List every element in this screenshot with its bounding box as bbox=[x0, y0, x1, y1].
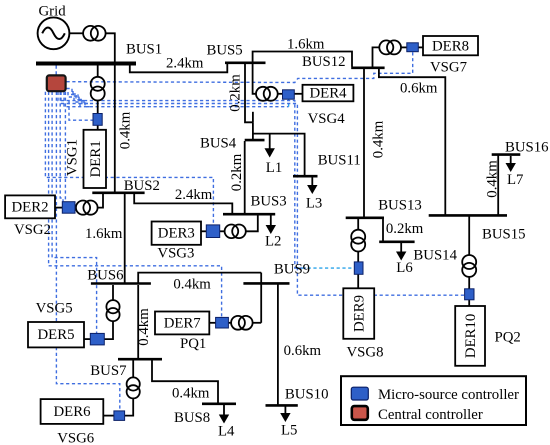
wire DER1 square to DER1 box bbox=[97, 125, 99, 130]
transformer DER10 TX bbox=[462, 255, 476, 277]
svg-text:DER2: DER2 bbox=[12, 199, 49, 215]
svg-text:DER9: DER9 bbox=[352, 295, 368, 332]
wire transformer to BUS1 bbox=[105, 33, 114, 62]
svg-text:PQ1: PQ1 bbox=[180, 336, 206, 352]
svg-text:BUS7: BUS7 bbox=[90, 363, 126, 379]
wire DER2 riser to BUS2 bbox=[98, 193, 103, 208]
wire DER2 square to TX bbox=[75, 207, 76, 209]
wire DER10 TX to square bbox=[468, 277, 470, 289]
wire dashed central controller to DER4 square bottom bbox=[64, 92, 289, 107]
wire BUS9 drop and DER7 riser bbox=[260, 273, 262, 323]
svg-text:1.6km: 1.6km bbox=[287, 37, 325, 53]
micro-source controller square DER10 bbox=[465, 289, 474, 300]
svg-text:L6: L6 bbox=[396, 260, 412, 276]
svg-text:BUS13: BUS13 bbox=[378, 198, 422, 214]
wire dashed central controller to DER9 square bbox=[58, 92, 306, 268]
wire grid to transformer bbox=[69, 32, 83, 34]
svg-text:DER5: DER5 bbox=[38, 327, 75, 343]
transformer DER7 TX bbox=[231, 316, 253, 330]
bus BUS16 bbox=[492, 153, 521, 156]
transformer DER1 TX bbox=[91, 77, 105, 101]
wire DER2 box to square bbox=[55, 207, 62, 209]
wire BUS7 to BUS8 0.4km bbox=[152, 360, 218, 403]
svg-text:Grid: Grid bbox=[39, 4, 67, 20]
wire DER3 box to square bbox=[201, 230, 206, 232]
svg-text:0.2km: 0.2km bbox=[229, 153, 245, 191]
svg-text:0.4km: 0.4km bbox=[371, 120, 387, 158]
svg-text:Central controller: Central controller bbox=[378, 407, 483, 423]
wire BUS7 to DER6 TX bbox=[132, 360, 134, 378]
transformer DER9 TX bbox=[351, 230, 365, 252]
micro-source controller square DER6 bbox=[114, 411, 125, 421]
svg-text:DER4: DER4 bbox=[310, 86, 348, 102]
svg-text:BUS6: BUS6 bbox=[87, 268, 123, 284]
DER6 box bbox=[41, 399, 104, 424]
transformer DER2 TX bbox=[76, 201, 98, 215]
svg-text:BUS4: BUS4 bbox=[200, 136, 237, 152]
load L7 arrow bbox=[506, 156, 516, 172]
svg-text:Micro-source controller: Micro-source controller bbox=[378, 387, 519, 403]
wire dashed central controller to DER2 square second line bbox=[60, 92, 63, 202]
wire dashed fan staircase decoration 4 bbox=[73, 91, 91, 107]
svg-text:VSG7: VSG7 bbox=[430, 60, 467, 76]
svg-text:BUS14: BUS14 bbox=[413, 248, 457, 264]
svg-text:BUS12: BUS12 bbox=[302, 54, 346, 70]
wire DER5 square to box bbox=[84, 338, 90, 340]
svg-text:L3: L3 bbox=[306, 196, 322, 212]
legend micro-source controller square bbox=[351, 387, 368, 400]
svg-text:DER10: DER10 bbox=[463, 314, 479, 358]
legend box bbox=[341, 376, 526, 425]
wire BUS9 to BUS10 0.6km bbox=[277, 285, 279, 406]
micro-source controller square DER2 bbox=[62, 202, 75, 214]
bus BUS5 bbox=[225, 61, 266, 64]
wire dashed central controller to DER1 square bbox=[69, 101, 93, 120]
wire DER6 square to box bbox=[103, 415, 114, 417]
svg-text:L2: L2 bbox=[265, 234, 281, 250]
wire dashed BUS9 to DER9 square light segment bbox=[296, 267, 354, 269]
wire BUS1 to BUS2 feeder 0.4km bbox=[114, 65, 116, 192]
svg-text:BUS8: BUS8 bbox=[174, 410, 210, 426]
transformer DER4 TX bbox=[256, 87, 278, 101]
svg-text:L7: L7 bbox=[507, 172, 523, 188]
transformer DER5 TX bbox=[106, 300, 119, 321]
svg-text:VSG5: VSG5 bbox=[36, 301, 73, 317]
wire BUS6 to BUS9 0.4km riser bbox=[138, 273, 261, 283]
svg-text:0.6km: 0.6km bbox=[400, 81, 438, 97]
wire BUS2 to BUS3 2.4km bbox=[134, 193, 232, 213]
wire DER4 TX to square bbox=[278, 93, 283, 95]
svg-text:BUS10: BUS10 bbox=[285, 387, 329, 403]
wire DER9 TX to square bbox=[357, 252, 359, 263]
bus BUS15 bbox=[429, 214, 507, 217]
wire BUS2 to BUS6 1.6km bbox=[124, 194, 126, 283]
wire DER7 TX elbow bbox=[253, 322, 262, 324]
svg-text:2.4km: 2.4km bbox=[166, 56, 204, 72]
wire dashed central controller to DER8 square bbox=[67, 52, 413, 83]
wire DER4 square to box bbox=[294, 93, 302, 95]
wire BUS4 branch junction to BUS11 bbox=[253, 134, 305, 177]
bus BUS11 bbox=[293, 175, 318, 178]
wire dashed central controller to DER6 square bbox=[56, 92, 119, 411]
wire jog down to BUS4 junction bbox=[252, 122, 254, 141]
load L5 arrow bbox=[280, 407, 290, 423]
svg-text:DER1: DER1 bbox=[88, 140, 104, 177]
micro-source controller square DER3 bbox=[206, 225, 219, 238]
transformer DER6 TX bbox=[127, 377, 140, 398]
wire BUS13 to BUS14 0.2km bbox=[382, 219, 384, 242]
svg-text:VSG3: VSG3 bbox=[157, 246, 194, 262]
bus BUS14 bbox=[379, 241, 414, 244]
svg-text:L4: L4 bbox=[218, 424, 235, 440]
svg-text:BUS15: BUS15 bbox=[482, 227, 526, 243]
wire DER6 TX to square elbow bbox=[125, 398, 134, 415]
wire BUS13 to DER9 TX bbox=[357, 219, 359, 230]
wire dashed BUS1 to central controller bbox=[55, 66, 57, 76]
wire DER9 square to box bbox=[357, 274, 359, 288]
wire DER8 square to box bbox=[418, 46, 423, 48]
svg-text:BUS16: BUS16 bbox=[505, 140, 549, 156]
svg-text:1.6km: 1.6km bbox=[85, 226, 123, 242]
DER8 box bbox=[423, 36, 478, 55]
svg-text:0.6km: 0.6km bbox=[284, 343, 322, 359]
svg-text:DER8: DER8 bbox=[432, 39, 469, 55]
load L3 arrow bbox=[307, 176, 317, 194]
bus BUS3 bbox=[223, 213, 275, 216]
central controller (red square) bbox=[47, 75, 66, 91]
svg-text:BUS2: BUS2 bbox=[124, 178, 160, 194]
svg-text:0.2km: 0.2km bbox=[386, 221, 424, 237]
legend central controller square bbox=[352, 406, 368, 420]
wire dashed fan staircase decoration bbox=[67, 89, 85, 105]
wire dashed DER4 square stub light bbox=[288, 99, 290, 107]
transformer DER3 TX bbox=[225, 225, 246, 239]
wire DER4 drop from BUS5 bbox=[253, 62, 257, 94]
wire dashed central controller to DER10 square bbox=[61, 92, 464, 295]
micro-source controller square DER8 bbox=[407, 43, 419, 52]
bus BUS2 bbox=[92, 192, 144, 195]
DER2 box bbox=[5, 195, 55, 218]
svg-text:VSG6: VSG6 bbox=[57, 431, 94, 445]
svg-text:L5: L5 bbox=[281, 423, 297, 439]
bus BUS13 bbox=[346, 217, 384, 220]
wire DER7 square to TX bbox=[228, 322, 231, 324]
micro-source controller square DER4 bbox=[283, 90, 295, 99]
bus BUS4 bbox=[245, 139, 265, 142]
wire DER7 box to square bbox=[209, 322, 215, 324]
wire DER3 square to TX bbox=[220, 230, 225, 232]
wire DER10 square to box bbox=[468, 300, 470, 306]
svg-text:VSG4: VSG4 bbox=[308, 111, 346, 127]
wire BUS12 to BUS15 0.6km bbox=[379, 69, 445, 215]
wire DER8 TX to square bbox=[401, 46, 407, 48]
svg-text:BUS11: BUS11 bbox=[318, 153, 361, 169]
micro-source controller square DER9 bbox=[354, 262, 363, 274]
svg-text:0.4km: 0.4km bbox=[173, 277, 211, 293]
micro-source controller square DER1 bbox=[93, 114, 102, 126]
wire stub above jog bbox=[252, 112, 254, 123]
micro-source controller square DER7 bbox=[216, 317, 229, 328]
svg-text:0.4km: 0.4km bbox=[485, 160, 501, 198]
wire BUS5 0.2km down with jog bbox=[245, 64, 253, 122]
bus BUS8 bbox=[202, 402, 236, 405]
svg-text:DER7: DER7 bbox=[164, 315, 201, 331]
svg-text:0.4km: 0.4km bbox=[117, 111, 133, 149]
DER7 box bbox=[155, 312, 209, 335]
micro-source controller square DER5 bbox=[90, 333, 104, 345]
DER4 box bbox=[303, 85, 354, 102]
svg-text:0.2km: 0.2km bbox=[228, 74, 244, 112]
bus BUS9 bbox=[243, 282, 289, 285]
wire dashed fan staircase decoration 2 bbox=[68, 92, 80, 107]
svg-text:L1: L1 bbox=[266, 160, 282, 176]
svg-text:VSG1: VSG1 bbox=[65, 139, 81, 176]
svg-text:BUS9: BUS9 bbox=[274, 262, 310, 278]
bus BUS7 bbox=[118, 358, 162, 361]
wire BUS15 to DER10 TX bbox=[468, 217, 470, 256]
wire BUS4 to BUS3 0.2km bbox=[244, 141, 246, 213]
svg-text:DER6: DER6 bbox=[54, 404, 91, 420]
svg-text:0.4km: 0.4km bbox=[172, 386, 210, 402]
wire DER5 TX to square elbow bbox=[104, 321, 113, 339]
svg-text:PQ2: PQ2 bbox=[495, 330, 521, 346]
load L2 arrow bbox=[266, 215, 276, 234]
load L4 arrow bbox=[219, 405, 229, 424]
DER9 box bbox=[343, 288, 374, 339]
wire BUS12 riser to DER8 TX bbox=[373, 47, 380, 67]
wire dashed central controller to DER5 square bbox=[52, 92, 97, 333]
DER10 box bbox=[455, 306, 485, 366]
wire dashed central controller to DER2 square bbox=[64, 92, 66, 202]
wire dashed fan staircase decoration 3 bbox=[71, 95, 88, 104]
wire BUS1 to BUS5 line 2.4km bbox=[130, 64, 228, 72]
DER5 box bbox=[28, 322, 84, 347]
transformer DER8 TX bbox=[379, 40, 401, 54]
svg-text:DER3: DER3 bbox=[158, 226, 195, 242]
bus BUS12 bbox=[351, 67, 384, 70]
wire dashed central controller to DER3 square bbox=[45, 92, 213, 225]
DER1 box bbox=[84, 130, 107, 188]
wire BUS5 to BUS12 line 1.6km bbox=[253, 52, 352, 67]
svg-text:BUS3: BUS3 bbox=[251, 194, 287, 210]
wire BUS12 to BUS13 0.4km bbox=[363, 69, 365, 217]
load L1 arrow bbox=[265, 134, 275, 158]
wire BUS16 to BUS15 0.4km bbox=[497, 155, 499, 215]
DER3 box bbox=[152, 222, 201, 245]
wire DER1 TX to controller square bbox=[97, 101, 99, 114]
transformer grid TX bbox=[83, 26, 106, 41]
wire dashed central controller to DER7 square bbox=[49, 92, 222, 317]
wire DER3 riser to BUS3 bbox=[246, 215, 258, 231]
bus BUS1 bbox=[36, 62, 136, 66]
load L6 arrow bbox=[396, 243, 406, 261]
AC source Grid bbox=[38, 17, 70, 49]
svg-text:VSG2: VSG2 bbox=[14, 222, 51, 238]
svg-text:BUS5: BUS5 bbox=[207, 43, 243, 59]
DASHED-NETWORK bbox=[45, 52, 464, 411]
svg-text:VSG8: VSG8 bbox=[347, 345, 384, 361]
svg-text:BUS1: BUS1 bbox=[126, 42, 162, 58]
bus BUS10 bbox=[266, 404, 298, 407]
wire BUS6 to DER5 TX bbox=[112, 285, 114, 300]
svg-text:2.4km: 2.4km bbox=[175, 187, 213, 203]
svg-text:0.4km: 0.4km bbox=[136, 308, 152, 346]
bus BUS6 bbox=[91, 282, 151, 285]
wire BUS1 down to DER1 transformer bbox=[97, 65, 99, 77]
wire BUS6 to BUS7 0.4km bbox=[137, 285, 139, 358]
